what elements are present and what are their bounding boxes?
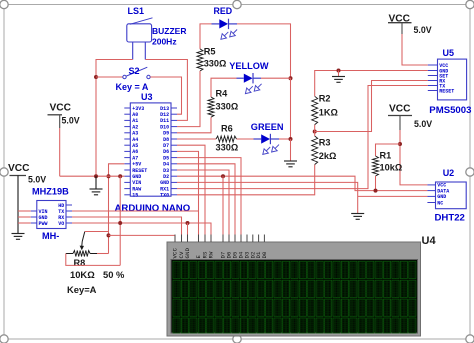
wire DHT GND to ground [358,195,428,197]
wire U3 TX0 to R3 [177,165,315,195]
wire U3 D4 to LCD D5 [177,164,235,242]
wire U3 RX1 to PMS TX [177,86,428,189]
resistor R6 [216,124,239,153]
ground DHT22 [351,214,364,220]
wire R4 bottom to U3 D9 [177,117,211,133]
IC MHZ19B (MH-) [31,187,72,241]
svg-text:Key = A: Key = A [116,82,149,92]
svg-text:VO: VO [58,221,64,227]
wire R2 top to PMS GND [315,71,428,97]
svg-text:A1: A1 [132,118,138,124]
svg-text:10KΩ: 10KΩ [70,269,95,280]
svg-text:330Ω: 330Ω [216,101,239,111]
wire U3 D5 to LCD D4 [177,158,241,242]
wire U3 D2 data line to DHT22 [177,176,427,190]
LED RED [212,6,238,39]
svg-text:A4: A4 [132,137,138,143]
svg-text:MHZ19B: MHZ19B [32,187,69,197]
wire R5 bottom to U3 D10 [177,71,200,127]
svg-text:330Ω: 330Ω [204,58,227,68]
svg-text:U4: U4 [422,235,437,247]
svg-text:NC: NC [437,200,443,206]
svg-text:A0: A0 [132,112,138,118]
wire GND branch down [119,176,121,265]
svg-text:RED: RED [214,6,233,16]
svg-text:+3V3: +3V3 [132,106,144,112]
node R1-DATA junction [374,189,378,193]
svg-text:5.0V: 5.0V [414,119,432,129]
node R1 top tap [398,142,402,146]
ground MHZ19B stem [12,234,25,240]
wire buzzer-right to U3 D11 [145,60,187,121]
svg-text:D5: D5 [163,155,169,161]
node divider mid [313,130,317,134]
power VCC 5.0V (left edge) [8,163,46,234]
svg-text:+5V: +5V [132,162,141,168]
svg-text:TX0: TX0 [160,193,169,199]
svg-text:5.0V: 5.0V [414,25,432,35]
svg-text:RESET: RESET [439,88,454,94]
svg-text:Key=A: Key=A [67,284,97,295]
wire pot node to LCD VCC [109,235,176,242]
LED GREEN [251,122,284,154]
svg-text:R6: R6 [221,124,233,134]
wire rail to LED ground [290,139,292,161]
wire MHZ RX line to LCD CV [72,217,182,242]
wire rail yellow to green [290,78,292,139]
svg-text:S2: S2 [129,66,140,76]
IC U2 DHT22 [427,168,466,224]
power VCC 5.0V (top-right) [388,14,432,36]
power VCC 5.0V (right-mid) [388,103,432,130]
wire S2 to U3 D12 [150,77,181,114]
buzzer LS1 [127,6,187,60]
wire R5 top to RED LED anode [200,24,212,49]
svg-text:50 %: 50 % [103,269,125,280]
wire GND stem [95,176,97,189]
svg-text:330Ω: 330Ω [216,143,239,153]
wire pot wiper [85,231,109,233]
wire VCC to PMS VCC [402,34,428,65]
svg-text:R8: R8 [74,258,86,268]
svg-text:U2: U2 [443,168,455,178]
node PMS ground tap [337,69,341,73]
svg-text:GND: GND [184,247,191,258]
svg-text:U3: U3 [141,92,153,102]
wire divider to PMS RX [315,81,428,132]
svg-text:BUZZER: BUZZER [152,26,186,36]
svg-text:A7: A7 [132,155,138,161]
resistor R1 [373,150,403,176]
ground LED rail [284,161,297,167]
switch S2 [116,66,151,92]
wire stem to MHZ PWW [18,222,31,224]
wire R1 top [376,144,401,156]
svg-text:GREEN: GREEN [251,122,284,132]
svg-text:D0: D0 [261,251,268,259]
svg-text:D13: D13 [160,106,169,112]
wire branch to LCD GND pin [187,223,189,242]
node green-rail junction [289,137,293,141]
svg-text:10kΩ: 10kΩ [380,162,403,172]
svg-text:A3: A3 [132,131,138,137]
LCD display U4 [167,235,436,336]
svg-text:5.0V: 5.0V [62,115,80,125]
svg-text:RESET: RESET [132,168,147,174]
wire S2 left terminal [96,76,123,78]
wire U3 D6 to LCD E [177,151,199,242]
IC U3 ARDUINO NANO [115,92,191,214]
wire U3 +5V corner [109,164,125,254]
svg-text:D4: D4 [163,162,169,168]
wire pot right terminal [90,253,108,255]
svg-text:VCC: VCC [389,103,411,114]
svg-text:D3: D3 [163,168,169,174]
svg-text:R4: R4 [216,89,229,99]
ground PMS5003 [332,77,345,83]
svg-text:GND: GND [132,174,141,180]
svg-text:D11: D11 [160,118,169,124]
svg-text:A2: A2 [132,124,138,130]
LCD pin stubs [175,235,264,243]
node yellow-rail junction [289,76,293,80]
LED YELLOW [229,61,269,94]
svg-text:5.0V: 5.0V [28,175,46,185]
svg-text:VIN: VIN [132,180,141,186]
svg-text:PMS5003: PMS5003 [429,105,471,116]
wire R1 bottom to DATA [375,176,377,191]
svg-text:RAW: RAW [132,186,141,192]
svg-text:DHT22: DHT22 [435,213,465,224]
svg-text:15: 15 [132,193,138,199]
wire U3 D3 to LCD D6 [177,170,229,242]
wire VCC to DHT VCC [400,130,427,185]
node +5V/GND cross [107,174,111,178]
wire PMS ground stem [338,71,340,77]
wire R2-R3 node [314,125,316,136]
wire U3 D7 to LCD RS [177,145,205,242]
wire MHZ TX line [72,210,199,212]
wire U3 D8 to R6 [177,138,216,140]
svg-text:200Hz: 200Hz [152,36,177,46]
svg-text:RW: RW [208,251,215,259]
IC U5 PMS5003 [428,48,472,116]
svg-text:RX1: RX1 [160,186,169,192]
svg-text:YELLOW: YELLOW [229,61,269,71]
ground U3 GND [90,189,103,195]
svg-text:GND: GND [437,194,446,200]
svg-text:GND: GND [160,180,169,186]
svg-text:D2: D2 [163,174,169,180]
svg-text:1KΩ: 1KΩ [319,107,338,117]
resistor R2 [312,94,338,125]
resistor R5 [197,46,226,71]
wire U3 GND row [60,175,125,177]
svg-text:D6: D6 [163,149,169,155]
wire pot left to ground rail [66,254,120,266]
svg-text:D8: D8 [163,137,169,143]
wire buzzer-left / S2 ground rail [96,60,133,177]
svg-text:D9: D9 [163,131,169,137]
wire R6 to GREEN LED [237,138,254,140]
svg-text:D10: D10 [160,124,169,130]
svg-text:R3: R3 [319,138,331,148]
node GND-row branch [118,174,122,178]
svg-text:LS1: LS1 [128,6,145,16]
svg-text:R5: R5 [204,46,216,56]
wire YELLOW cathode to rail [261,77,291,79]
node GND-row left [94,174,98,178]
svg-text:2kΩ: 2kΩ [319,151,337,161]
svg-text:R2: R2 [319,94,331,104]
potentiometer R8 [67,232,125,296]
wire MHZ VO / ground net to LCD [72,223,211,242]
wire RED LED cathode to LED ground rail [237,24,291,78]
svg-text:PWW: PWW [39,221,48,227]
wire VCC down to GND row [59,128,61,176]
wire branch to LCD D7 [222,176,224,242]
svg-text:A6: A6 [132,149,138,155]
power VCC 5.0V (top-left) [48,102,80,128]
resistor R4 [208,89,238,118]
svg-text:R1: R1 [380,150,392,160]
svg-text:MH-: MH- [42,231,59,241]
svg-text:VCC: VCC [8,163,30,174]
svg-text:D12: D12 [160,112,169,118]
wire R4 top to YELLOW LED anode [211,78,237,97]
svg-text:A5: A5 [132,143,138,149]
node D2 to LCD D7 branch [221,174,225,178]
svg-text:U5: U5 [443,48,455,58]
resistor R3 [312,136,337,165]
wire stem to MHZ GND [18,216,31,218]
svg-text:D7: D7 [163,143,169,149]
node VO net to LCD GND [186,221,190,225]
svg-text:ARDUINO NANO: ARDUINO NANO [115,203,191,214]
svg-text:VCC: VCC [50,102,72,113]
node VO-GND cross [118,221,122,225]
svg-text:VCC: VCC [389,14,411,25]
wire GREEN cathode to rail [279,138,291,140]
wire U3 GND(right) to common ground [177,182,358,213]
node S2-left junction [94,75,98,79]
wire VCC stem to MHZ VIN [18,210,31,212]
node pot junction [107,233,111,237]
